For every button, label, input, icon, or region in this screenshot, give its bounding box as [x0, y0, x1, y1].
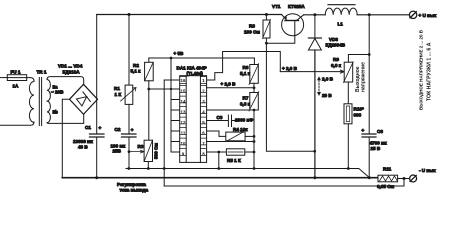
- wire bridge left corner to ground rail: [62, 99, 69, 177]
- resistor R5: [226, 149, 244, 155]
- svg-text:25 В: 25 В: [371, 146, 381, 151]
- junction dot R6 R7: [253, 86, 256, 89]
- svg-text:КТ825А: КТ825А: [288, 4, 305, 9]
- svg-text:VT1: VT1: [272, 4, 281, 9]
- ground rail (bottom long): [62, 177, 378, 179]
- wire R9 branch: [348, 55, 369, 63]
- svg-text:R10*: R10*: [354, 107, 364, 112]
- svg-text:- U вых: - U вых: [419, 168, 436, 173]
- resistor R4: [226, 132, 245, 141]
- svg-text:6,8 к: 6,8 к: [331, 63, 342, 68]
- capacitor C1: [90, 134, 105, 137]
- minus sense bottom wire: [164, 179, 404, 187]
- wire R2 bottom to R3: [148, 81, 150, 140]
- svg-text:10: 10: [181, 141, 186, 146]
- top rail left section: [97, 14, 282, 16]
- svg-text:R3: R3: [138, 144, 144, 149]
- svg-text:R8: R8: [249, 24, 255, 29]
- wire IC pin4 to R7 bottom: [207, 109, 254, 111]
- wire IC pin6 to R4: [207, 131, 226, 136]
- junction dot R8 base: [265, 42, 268, 45]
- wire R8 to base: [266, 36, 294, 44]
- svg-text:R4 10к: R4 10к: [233, 127, 248, 132]
- svg-text:+ 2,0 В: + 2,0 В: [282, 66, 298, 71]
- svg-text:14: 14: [181, 99, 186, 104]
- svg-text:тока выхода: тока выхода: [120, 188, 149, 193]
- resistor R7: [249, 92, 259, 112]
- svg-text:+: +: [131, 128, 134, 133]
- svg-text:Регулировка: Регулировка: [117, 182, 146, 187]
- resistor R6: [249, 64, 259, 85]
- wire IC pin8 to R5: [207, 151, 227, 153]
- svg-text:(TL494): (TL494): [187, 71, 204, 76]
- svg-text:+: +: [362, 128, 365, 133]
- svg-text:VD3: VD3: [329, 37, 338, 42]
- svg-text:5,1 к: 5,1 к: [131, 69, 142, 74]
- wire C3 right stub: [232, 120, 236, 122]
- svg-text:+ U вых: + U вых: [419, 13, 437, 18]
- wire R1 bottom to C2: [128, 104, 130, 134]
- wire R2 junction to IC pin row2: [149, 88, 180, 90]
- bus A top stub to IC: [164, 79, 180, 81]
- svg-text:TR 1: TR 1: [37, 70, 47, 75]
- junction dots busB stubs: [170, 88, 172, 90]
- svg-text:напряжение: напряжение: [361, 62, 367, 92]
- junction dot R11 terminal: [403, 177, 406, 180]
- wire IC pin5 to C3: [207, 120, 228, 122]
- svg-text:L1: L1: [338, 22, 344, 27]
- junction dot R3 rail: [147, 167, 150, 170]
- wire R3 wiper: [129, 150, 144, 153]
- R1 wiper arrow: [121, 88, 137, 102]
- junction dot busB +5V: [170, 57, 173, 60]
- junction dot output column rail: [368, 13, 371, 16]
- svg-text:C2: C2: [115, 127, 121, 132]
- wire R2 top: [148, 58, 150, 62]
- resistor R2: [145, 62, 154, 81]
- svg-text:R5 1 К: R5 1 К: [227, 158, 241, 163]
- wire primary bottom to mains: [0, 122, 34, 125]
- svg-text:13: 13: [181, 110, 186, 115]
- wire R10 bottom to component rail: [347, 124, 349, 169]
- svg-text:+ 5В: + 5В: [174, 51, 185, 56]
- wire bridge plus corner up to top rail: [96, 15, 99, 135]
- junction dot pin7 column: [253, 140, 256, 143]
- transformer core: [39, 78, 41, 126]
- junction dot R5 column: [253, 151, 256, 154]
- svg-text:+ 2,0 В: + 2,0 В: [221, 82, 237, 87]
- diode symbol inside bridge: [76, 92, 91, 107]
- svg-text:C1: C1: [85, 125, 91, 130]
- junction dot VD3 column: [313, 150, 316, 153]
- svg-text:R9: R9: [333, 57, 339, 62]
- junction dot VD3 ground: [313, 176, 316, 179]
- IC pin cell boxes: [180, 77, 207, 156]
- junction dot busA component rail: [163, 167, 166, 170]
- svg-text:12: 12: [181, 120, 186, 125]
- svg-text:560 Ом: 560 Ом: [154, 142, 159, 159]
- wire R6 top from +5V: [253, 58, 255, 65]
- svg-text:+: +: [99, 126, 102, 131]
- resistor R9 variable: [344, 62, 354, 83]
- junction dot R8 rail: [265, 13, 268, 16]
- junction dot VD3 rail: [313, 13, 316, 16]
- wire top rail to R1: [128, 15, 130, 86]
- diode VD3: [308, 38, 321, 50]
- svg-text:VD1 ... VD4: VD1 ... VD4: [58, 64, 83, 69]
- wire VD3 column top: [314, 15, 316, 38]
- IC right pin numbers: [202, 78, 205, 157]
- wire IC pin2 to R6 R7 junction: [207, 87, 254, 89]
- terminal minus Uout: [410, 175, 417, 182]
- resistor R8: [263, 15, 271, 44]
- svg-text:C6: C6: [377, 129, 383, 134]
- wire mains top stub: [0, 77, 7, 79]
- svg-text:0,05 Ом: 0,05 Ом: [377, 184, 395, 189]
- wire R7 column down: [253, 110, 255, 169]
- wire output column down: [368, 15, 370, 134]
- junction dot C2 rail: [127, 167, 130, 170]
- svg-text:20 В: 20 В: [322, 93, 332, 98]
- top rail right section: [304, 14, 326, 16]
- wire C6 bottom to ground: [368, 137, 370, 178]
- wire R5 right to column: [245, 151, 254, 153]
- top rail after L1: [357, 14, 409, 16]
- svg-text:ВЫХОДНОЕ НАПРЯЖЕНИЕ 2 ... 20 В: ВЫХОДНОЕ НАПРЯЖЕНИЕ 2 ... 20 В: [418, 29, 423, 110]
- junction dot R7 bottom: [253, 109, 256, 112]
- junction dot R4 column: [253, 135, 256, 138]
- svg-text:13000 мк: 13000 мк: [73, 139, 93, 144]
- wire secondary bottom to bridge bottom corner: [47, 114, 84, 123]
- junction dot R10 rail: [347, 167, 350, 170]
- transistor VT1: [282, 14, 304, 36]
- transformer T1 secondary winding IIb: [47, 101, 50, 123]
- transformer T1 secondary winding IIa: [47, 80, 50, 102]
- svg-text:16: 16: [181, 78, 186, 83]
- svg-text:DA1 KIA 494P: DA1 KIA 494P: [177, 66, 207, 71]
- wire pin8 dot down to rail: [218, 152, 220, 169]
- svg-text:2,0 В: 2,0 В: [322, 76, 334, 81]
- voltage range arrows: [317, 76, 321, 96]
- svg-text:680: 680: [354, 113, 362, 118]
- junction dot column rail: [253, 167, 256, 170]
- label output voltage rotated: [355, 62, 367, 92]
- bus B left of IC: [170, 58, 172, 152]
- junction dot R2 bottom: [147, 88, 150, 91]
- wire R9 bottom to R10: [347, 82, 349, 104]
- svg-text:ТОК НАГРУЗКИ 1 ... 6 А: ТОК НАГРУЗКИ 1 ... 6 А: [426, 42, 432, 101]
- junction dot rail-R1: [128, 13, 131, 16]
- diode bridge VD1-VD4 diamond: [70, 84, 98, 114]
- resistor R3: [144, 140, 152, 161]
- wire base node down to VD3 column: [266, 43, 314, 151]
- IC left pin stubs: [171, 100, 180, 153]
- svg-text:1 К: 1 К: [115, 92, 122, 97]
- svg-text:1A: 1A: [13, 84, 20, 89]
- svg-text:11: 11: [181, 131, 186, 136]
- wire R9 wiper branch: [280, 70, 344, 73]
- svg-text:C3: C3: [217, 115, 223, 120]
- svg-text:5,1 к: 5,1 к: [240, 71, 251, 76]
- svg-text:R6: R6: [243, 65, 249, 70]
- transformer T1 primary winding I: [29, 82, 34, 123]
- junction dot C1-ground: [95, 176, 98, 179]
- fuse FU1: [7, 75, 26, 81]
- svg-text:КД213А: КД213А: [63, 70, 81, 75]
- svg-text:4700 мк: 4700 мк: [370, 141, 388, 146]
- junction dot pin8 rail: [217, 167, 220, 170]
- svg-text:КД2994В: КД2994В: [326, 43, 346, 48]
- wire IC pin1 feedback path: [207, 52, 281, 81]
- junction dot C2 wiper: [128, 150, 131, 153]
- wire R11 to terminal: [398, 178, 410, 180]
- bus A left of IC: [163, 80, 165, 186]
- IC left pin numbers: [181, 78, 186, 157]
- wire C2 bottom to component rail: [128, 137, 130, 169]
- junction dot R9 branch: [368, 53, 371, 56]
- capacitor C3: [228, 115, 231, 127]
- wire secondary top to bridge top corner: [47, 77, 84, 85]
- svg-text:2000 пФ: 2000 пФ: [235, 118, 253, 123]
- wire VD3 to ground rail: [314, 50, 316, 178]
- wire R4 right to column: [245, 135, 254, 137]
- svg-text:100 Ом: 100 Ом: [244, 30, 261, 35]
- op-amp IC DA1 KIA494P body: [180, 76, 207, 163]
- inductor L1: [325, 5, 357, 15]
- wire +5V rail: [149, 57, 255, 59]
- svg-text:R7: R7: [243, 96, 249, 101]
- svg-text:~ 20B: ~ 20B: [51, 90, 64, 95]
- svg-text:40 В: 40 В: [78, 145, 88, 150]
- wire R6 bottom: [253, 83, 255, 92]
- component rail: [126, 169, 370, 178]
- resistor R1 (variable): [125, 85, 133, 104]
- svg-text:R2: R2: [133, 63, 139, 68]
- wire R3 bottom to component rail: [147, 162, 149, 169]
- svg-text:IIb: IIb: [53, 110, 59, 115]
- junction dot C6 ground: [368, 176, 371, 179]
- svg-text:R11: R11: [383, 167, 392, 172]
- svg-text:FU 1: FU 1: [11, 70, 21, 75]
- capacitor C6: [362, 134, 376, 137]
- shunt resistor R11: [378, 175, 398, 182]
- wire fuse to primary: [27, 78, 34, 82]
- terminal plus Uout: [409, 11, 416, 18]
- svg-text:15: 15: [181, 89, 186, 94]
- svg-text:25В: 25В: [113, 149, 122, 154]
- svg-text:R1: R1: [114, 86, 120, 91]
- resistor R10: [344, 104, 352, 124]
- wire C1 bottom to ground rail: [96, 137, 98, 178]
- label output spec line1 rotated: [418, 29, 432, 110]
- junction dot pin8: [217, 151, 220, 154]
- svg-text:IIa: IIa: [53, 84, 59, 89]
- capacitor C2: [122, 134, 137, 137]
- svg-text:3,3 к: 3,3 к: [240, 102, 251, 107]
- wire IC pin7 to column: [207, 141, 254, 143]
